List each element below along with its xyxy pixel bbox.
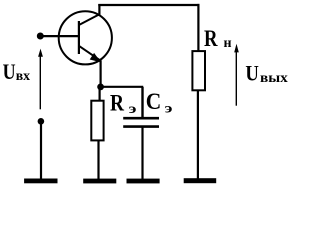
node: input top terminal dot: [37, 33, 44, 40]
svg-text:э: э: [165, 102, 173, 117]
capacitor Ce top plate: [123, 117, 159, 120]
capacitor Ce bottom plate: [123, 125, 159, 128]
svg-text:R: R: [110, 90, 124, 115]
output voltage arrow: [234, 44, 239, 106]
ground under Re: [83, 179, 116, 184]
wire: base lead from input node to transistor: [40, 35, 79, 37]
label Re: [110, 90, 137, 117]
label Uin: [3, 59, 30, 84]
wire: Rn bottom to ground: [197, 91, 199, 179]
emitter arrowhead: [91, 54, 100, 62]
resistor Re body: [91, 101, 103, 141]
input voltage arrow: [38, 49, 43, 110]
node: emitter junction dot: [97, 84, 104, 91]
wire: node horizontal to capacitor branch: [101, 86, 144, 88]
node: input bottom terminal dot: [38, 118, 45, 125]
wire: Re bottom to ground: [97, 141, 99, 179]
svg-text:вых: вых: [260, 71, 288, 86]
transistor VT1: [59, 11, 112, 64]
emitter diagonal: [79, 46, 100, 61]
ground under Ce: [127, 179, 160, 184]
wire: input bottom terminal to ground: [40, 121, 42, 179]
label Rn: [204, 26, 232, 51]
svg-text:вх: вх: [16, 69, 30, 84]
svg-text:э: э: [129, 102, 137, 117]
wire: node down to Re: [98, 87, 100, 101]
base bar: [78, 21, 80, 54]
svg-text:U: U: [3, 59, 16, 84]
svg-text:C: C: [146, 89, 162, 114]
wire: capacitor top lead: [141, 87, 143, 118]
ground under Rn: [184, 178, 217, 183]
resistor Rn body: [192, 51, 205, 90]
wire: emitter vertical to node: [99, 60, 101, 87]
svg-text:R: R: [204, 26, 218, 51]
collector diagonal: [79, 14, 99, 25]
label Ce: [146, 89, 173, 117]
wire: right vertical down to Rn: [197, 4, 199, 51]
wire: top horizontal rail: [98, 4, 199, 6]
svg-text:U: U: [245, 61, 259, 86]
wire: collector vertical stub: [98, 4, 100, 15]
transistor body circle: [59, 11, 112, 64]
ground under input: [24, 179, 57, 184]
wire: capacitor bottom lead to ground: [141, 127, 143, 179]
svg-text:н: н: [224, 36, 232, 51]
label Uout: [245, 61, 287, 86]
